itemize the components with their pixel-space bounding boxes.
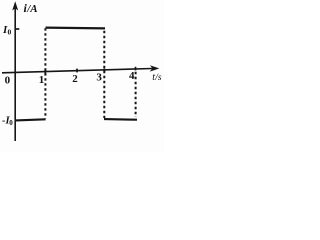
y-axis arrowhead bbox=[12, 1, 18, 10]
svg-text:4: 4 bbox=[129, 70, 135, 82]
tick t=3 bbox=[103, 69, 105, 73]
svg-text:1: 1 bbox=[39, 74, 45, 86]
svg-text:/s: /s bbox=[154, 73, 162, 83]
svg-text:0: 0 bbox=[8, 28, 12, 37]
tick t=1 bbox=[44, 70, 46, 74]
tick I0 on y-axis bbox=[15, 28, 19, 30]
wire: waveform segment +I0 from t=1 to t=3 bbox=[46, 27, 106, 30]
wire: dotted vertical at t=4 bbox=[135, 72, 137, 117]
wire: dotted vertical at t=3 bbox=[103, 31, 105, 118]
waveform chart i/A vs t/s bbox=[0, 0, 164, 152]
wire: dotted vertical at t=1 bbox=[44, 28, 46, 118]
svg-text:0: 0 bbox=[9, 119, 13, 127]
tick t=2 bbox=[76, 69, 78, 73]
svg-text:/A: /A bbox=[26, 3, 37, 15]
svg-text:2: 2 bbox=[72, 73, 78, 85]
y-axis bbox=[14, 8, 16, 142]
x-axis arrowhead bbox=[150, 65, 160, 71]
svg-text:0: 0 bbox=[5, 75, 11, 87]
wire: waveform segment -I0 from t=3 to t=4 bbox=[104, 118, 137, 121]
x-axis bbox=[2, 69, 152, 73]
wire: waveform segment -I0 from t=0 to t=1 bbox=[16, 119, 46, 120]
svg-text:3: 3 bbox=[96, 72, 102, 84]
tick t=4 bbox=[135, 67, 137, 71]
